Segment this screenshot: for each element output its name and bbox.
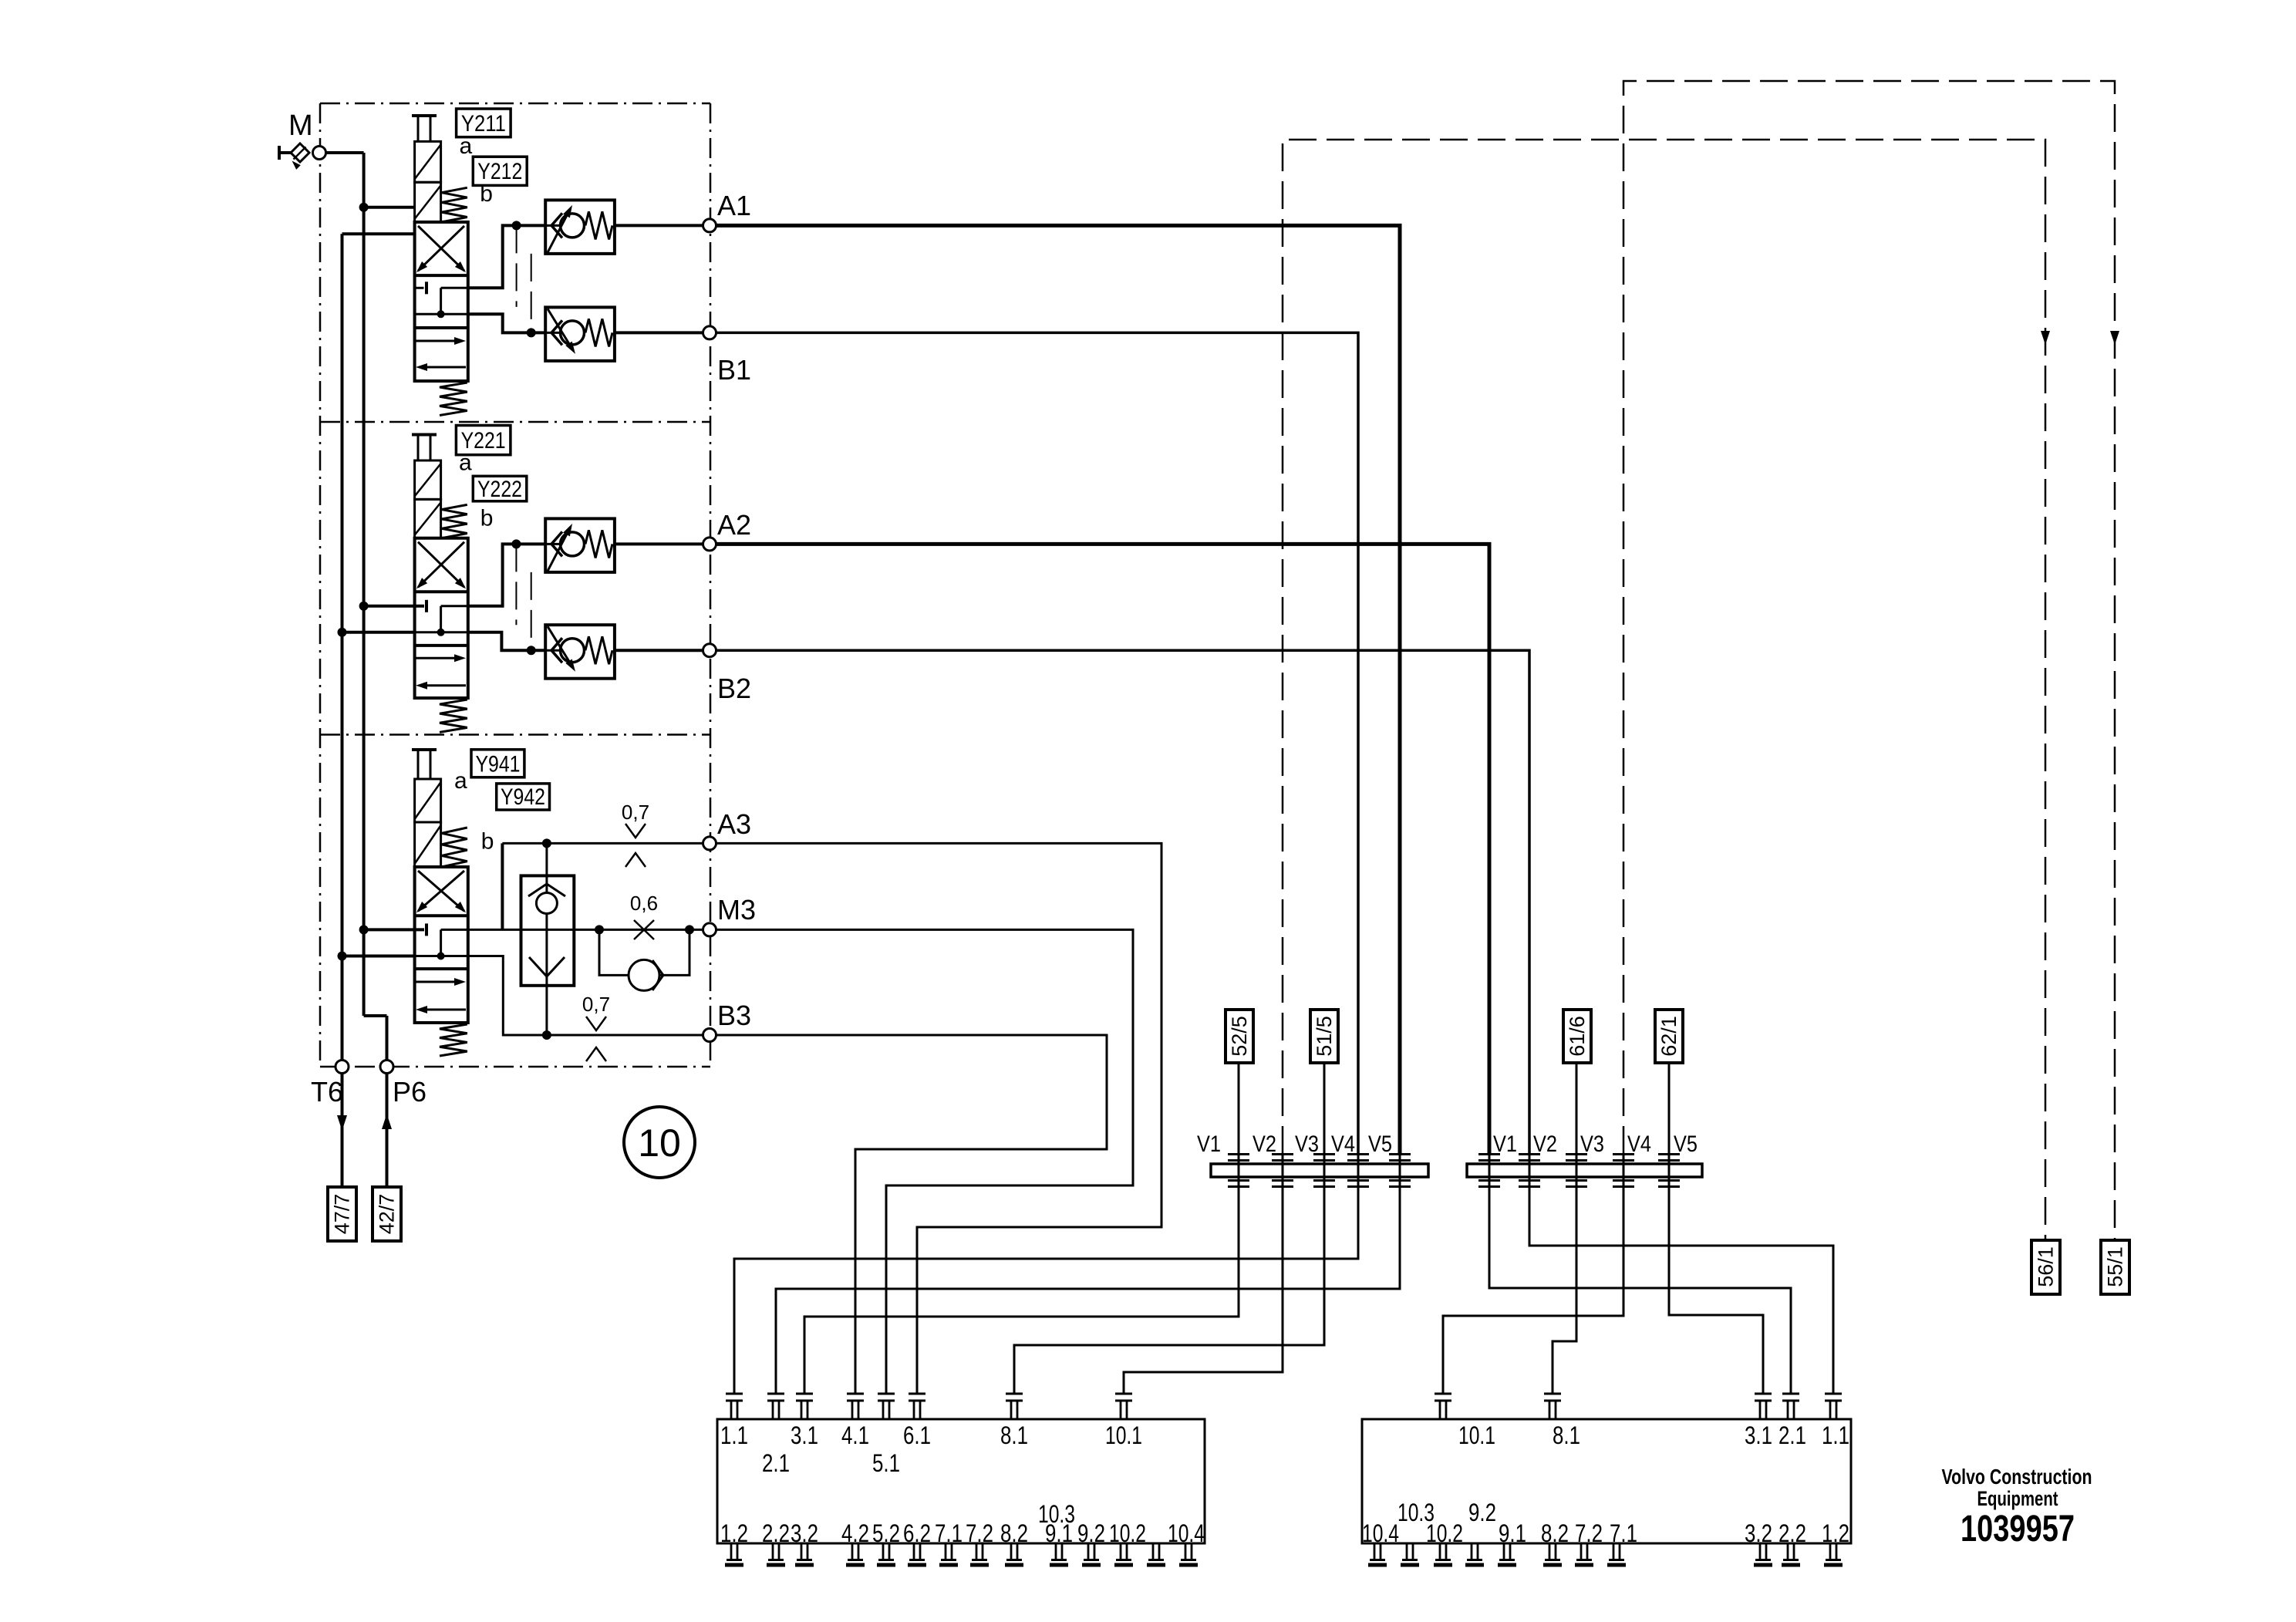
reference box 47/7 bbox=[328, 1187, 356, 1241]
svg-text:A3: A3 bbox=[717, 808, 751, 840]
valve Y221/Y222 parallel arrows position bbox=[416, 657, 461, 659]
valve Y221/Y222 centre position blocked port bbox=[415, 605, 424, 607]
svg-text:62/1: 62/1 bbox=[1657, 1016, 1681, 1057]
svg-text:a: a bbox=[454, 768, 467, 794]
svg-text:47/7: 47/7 bbox=[331, 1194, 354, 1235]
valve Y211/Y212 pilot cap bbox=[412, 114, 437, 117]
port M end bar bbox=[278, 146, 281, 160]
junction B3/module bbox=[542, 1030, 551, 1040]
label Y211 bbox=[457, 109, 511, 137]
reference box 56/1 bbox=[2031, 1240, 2060, 1294]
svg-text:V5: V5 bbox=[1368, 1131, 1392, 1157]
wire V4 right to 10.1 bbox=[1443, 1187, 1623, 1393]
spring lower Y941/Y942 bbox=[440, 1024, 467, 1056]
pin 2.2 (left block bottom) bbox=[772, 1543, 774, 1560]
pin 7.2 (left block bottom) bbox=[976, 1543, 978, 1560]
svg-text:P6: P6 bbox=[393, 1076, 426, 1108]
wire 61/6 stem bbox=[1576, 1063, 1578, 1154]
svg-text:b: b bbox=[481, 828, 494, 854]
pin 2.1 (right block top) bbox=[1782, 1393, 1799, 1395]
wire valve2 A-port to A2 bbox=[468, 544, 545, 605]
solenoid Y941/Y942 b box bbox=[415, 822, 441, 867]
pin 3.2 (right block bottom) bbox=[1759, 1543, 1762, 1560]
valve Y221/Y222 body bbox=[415, 538, 468, 698]
pin 5.2 (left block bottom) bbox=[882, 1543, 885, 1560]
svg-text:A2: A2 bbox=[717, 509, 751, 541]
svg-text:V2: V2 bbox=[1533, 1131, 1557, 1157]
svg-text:0,7: 0,7 bbox=[582, 993, 610, 1016]
wire V2 left to 10.1 bbox=[1124, 1187, 1283, 1393]
pin 10.1 (left block top) bbox=[1115, 1393, 1132, 1395]
connector block right bbox=[1362, 1419, 1851, 1543]
junction T-trunk valve2 tank bbox=[338, 628, 347, 637]
counterbalance valve B2 side bbox=[545, 625, 615, 679]
pin 9.1 (right block bottom) bbox=[1503, 1543, 1505, 1560]
svg-text:B1: B1 bbox=[717, 354, 751, 386]
wire B2 line bbox=[615, 649, 710, 652]
spring upper Y221/Y222 bbox=[442, 504, 467, 538]
pin 10.4 (left block bottom) bbox=[1185, 1543, 1187, 1560]
solenoid Y211/Y212 b box bbox=[415, 182, 441, 222]
pin 4.1 (left block top) bbox=[847, 1393, 864, 1395]
bulkhead connector V2 (right rail) bbox=[1519, 1153, 1540, 1155]
wire P-trunk vertical bbox=[362, 153, 366, 1016]
port M3 bbox=[703, 923, 716, 936]
port A1 bbox=[703, 219, 716, 232]
pin 2.2 (right block bottom) bbox=[1787, 1543, 1789, 1560]
svg-text:8.2: 8.2 bbox=[1000, 1519, 1028, 1547]
port P6 bbox=[380, 1061, 393, 1074]
svg-text:6.2: 6.2 bbox=[903, 1519, 931, 1547]
svg-text:7.1: 7.1 bbox=[1610, 1519, 1637, 1547]
svg-text:a: a bbox=[459, 450, 472, 476]
wire A3 long bbox=[716, 843, 1162, 1393]
port T6 bbox=[335, 1061, 349, 1074]
wire P6 down bbox=[386, 1074, 389, 1188]
wire A1 line bbox=[615, 224, 710, 227]
junction B2 pilot tap bbox=[527, 646, 536, 655]
svg-text:b: b bbox=[480, 506, 494, 531]
svg-text:8.1: 8.1 bbox=[1000, 1421, 1028, 1449]
bulkhead connector V2 (left rail) bbox=[1272, 1153, 1293, 1155]
bulkhead connector V4 (right rail) bbox=[1613, 1153, 1634, 1155]
wire valve3 T-port to B3 bbox=[468, 956, 710, 1036]
svg-text:42/7: 42/7 bbox=[376, 1194, 399, 1235]
svg-text:55/1: 55/1 bbox=[2104, 1246, 2127, 1287]
reference box 52/5 bbox=[1226, 1010, 1253, 1063]
bulkhead connector V3 (right rail) bbox=[1566, 1153, 1587, 1155]
wire tank Y941/Y942 bbox=[342, 955, 415, 958]
valve Y941/Y942 parallel arrows position bbox=[416, 981, 461, 983]
pin 1.2 (left block bottom) bbox=[730, 1543, 733, 1560]
pin 8.2 (left block bottom) bbox=[1010, 1543, 1013, 1560]
svg-text:1039957: 1039957 bbox=[1961, 1509, 2075, 1549]
wire tank Y211/Y212 bbox=[342, 232, 415, 235]
pin 1.1 (right block top) bbox=[1825, 1393, 1842, 1395]
svg-text:A1: A1 bbox=[717, 190, 751, 221]
valve Y941/Y942 crossed arrows position bbox=[418, 871, 464, 911]
svg-text:1.2: 1.2 bbox=[1822, 1519, 1849, 1547]
junction T-trunk valve3 tank bbox=[338, 952, 347, 961]
svg-text:1.2: 1.2 bbox=[720, 1519, 748, 1547]
pin 3.2 (left block bottom) bbox=[801, 1543, 803, 1560]
solenoid Y211/Y212 a box bbox=[415, 141, 441, 182]
wire B1 long bbox=[716, 332, 1359, 1154]
label Y941 bbox=[471, 750, 524, 777]
reference box 51/5 bbox=[1310, 1010, 1338, 1063]
wire M3 line bbox=[468, 929, 710, 931]
svg-text:2.1: 2.1 bbox=[1778, 1421, 1806, 1449]
svg-text:0,6: 0,6 bbox=[630, 892, 658, 915]
svg-text:B3: B3 bbox=[717, 1000, 751, 1031]
counterbalance valve A2 side bbox=[545, 518, 615, 572]
pin 3.1 (right block top) bbox=[1755, 1393, 1772, 1395]
svg-text:M: M bbox=[288, 110, 313, 142]
svg-text:5.1: 5.1 bbox=[872, 1449, 900, 1477]
bulkhead rail right bbox=[1467, 1164, 1702, 1177]
svg-text:Y941: Y941 bbox=[476, 752, 521, 777]
wire A3 line bbox=[502, 842, 710, 845]
svg-text:V4: V4 bbox=[1627, 1131, 1651, 1157]
svg-text:V1: V1 bbox=[1197, 1131, 1221, 1157]
svg-text:2.2: 2.2 bbox=[762, 1519, 790, 1547]
svg-text:3.2: 3.2 bbox=[1745, 1519, 1772, 1547]
pin 4.2 (left block bottom) bbox=[851, 1543, 854, 1560]
pin 7.1 (right block bottom) bbox=[1613, 1543, 1615, 1560]
pin 9.2 (left block bottom) bbox=[1087, 1543, 1090, 1560]
svg-text:56/1: 56/1 bbox=[2035, 1246, 2058, 1287]
svg-text:V3: V3 bbox=[1580, 1131, 1604, 1157]
svg-text:V4: V4 bbox=[1331, 1131, 1355, 1157]
pin 8.2 (right block bottom) bbox=[1549, 1543, 1551, 1560]
wire valve2 B-port to B2 bbox=[468, 632, 545, 650]
valve block boundary (dash-dot enclosure) bbox=[320, 103, 710, 105]
valve Y941/Y942 pilot cap bbox=[412, 748, 437, 751]
bulkhead connector V1 (left rail) bbox=[1228, 1153, 1249, 1155]
wire T6 down bbox=[341, 1074, 344, 1188]
junction M3 bypass left bbox=[595, 925, 604, 934]
solenoid Y941/Y942 a box bbox=[415, 779, 441, 822]
dual check valve module box bbox=[521, 875, 575, 985]
pilot line B2 to A-cb-valve bbox=[531, 572, 532, 650]
svg-text:b: b bbox=[480, 181, 493, 207]
pilot line A2 to B-cb-valve bbox=[515, 544, 517, 625]
valve Y211/Y212 centre position blocked port bbox=[415, 287, 424, 289]
svg-text:9.1: 9.1 bbox=[1499, 1519, 1526, 1547]
junction M3 bypass right bbox=[685, 925, 694, 934]
svg-text:3.1: 3.1 bbox=[1745, 1421, 1772, 1449]
valve Y941/Y942 centre position blocked port bbox=[415, 929, 424, 931]
svg-text:7.2: 7.2 bbox=[1575, 1519, 1603, 1547]
svg-text:10.2: 10.2 bbox=[1109, 1519, 1146, 1547]
wire tank Y221/Y222 bbox=[342, 631, 415, 634]
wire M3 long bbox=[716, 929, 1134, 1393]
label Y221 bbox=[456, 426, 511, 455]
junction A2 pilot tap bbox=[511, 539, 521, 548]
module central line bbox=[545, 843, 548, 1035]
svg-text:10.2: 10.2 bbox=[1426, 1519, 1463, 1547]
svg-text:10.3: 10.3 bbox=[1038, 1500, 1075, 1528]
pin 5.1 (left block top) bbox=[878, 1393, 895, 1395]
svg-text:a: a bbox=[460, 133, 473, 159]
bypass check valve bbox=[599, 929, 629, 975]
pin 6.1 (left block top) bbox=[909, 1393, 925, 1395]
label Y222 bbox=[473, 476, 527, 501]
dashed line to 55/1 bbox=[1623, 81, 2115, 1240]
junction P-trunk valve2 pilot bbox=[359, 602, 369, 611]
connector block left bbox=[717, 1419, 1205, 1543]
reference box 42/7 bbox=[373, 1187, 401, 1241]
wire 62/1 stem bbox=[1668, 1063, 1671, 1154]
wire V5 right to 3.1 bbox=[1669, 1187, 1763, 1393]
wire valve1 A-port to A1 bbox=[468, 225, 545, 288]
wire A2 long bbox=[716, 544, 1490, 1154]
bulkhead connector V5 (right rail) bbox=[1658, 1153, 1680, 1155]
junction P-trunk valve3 pilot bbox=[359, 925, 369, 934]
spring upper Y211/Y212 bbox=[442, 187, 467, 222]
svg-text:52/5: 52/5 bbox=[1228, 1016, 1251, 1057]
valve Y211/Y212 parallel arrows position bbox=[416, 340, 461, 342]
svg-text:10.1: 10.1 bbox=[1105, 1421, 1142, 1449]
svg-text:4.1: 4.1 bbox=[841, 1421, 869, 1449]
wire pilot Y941/Y942 bbox=[364, 928, 424, 931]
wire V3 left to 8.1 bbox=[1014, 1187, 1324, 1393]
solenoid Y221/Y222 a box bbox=[415, 460, 441, 499]
wire pilot Y221/Y222 bbox=[364, 605, 424, 608]
svg-text:4.2: 4.2 bbox=[841, 1519, 869, 1547]
svg-text:Y942: Y942 bbox=[501, 784, 545, 810]
spring lower Y221/Y222 bbox=[440, 700, 467, 732]
svg-text:1.1: 1.1 bbox=[1822, 1421, 1849, 1449]
pin 2.1 (left block top) bbox=[767, 1393, 784, 1395]
wire B1 line bbox=[615, 331, 710, 334]
svg-text:2.1: 2.1 bbox=[762, 1449, 790, 1477]
spring lower Y211/Y212 bbox=[440, 383, 467, 416]
svg-text:10.4: 10.4 bbox=[1168, 1519, 1205, 1547]
pin 10.4 (right block bottom) bbox=[1374, 1543, 1376, 1560]
svg-text:10: 10 bbox=[638, 1121, 681, 1165]
svg-text:9.2: 9.2 bbox=[1468, 1499, 1496, 1526]
wire M stub bbox=[279, 151, 292, 154]
measuring point diamond bbox=[291, 143, 309, 162]
port A3 bbox=[703, 837, 716, 850]
solenoid Y221/Y222 b box bbox=[415, 499, 441, 538]
wire valve1 B-port to B1 bbox=[468, 314, 545, 332]
svg-text:V1: V1 bbox=[1493, 1131, 1517, 1157]
wire V4 left to 1.1 bbox=[734, 1187, 1358, 1393]
svg-text:V5: V5 bbox=[1674, 1131, 1698, 1157]
orifice 0,6 bbox=[634, 920, 654, 939]
wire 51/5 stem bbox=[1323, 1063, 1326, 1154]
balloon 10 bbox=[624, 1107, 695, 1178]
wire V3 right to 8.1 bbox=[1553, 1187, 1576, 1393]
pin 3.1 (left block top) bbox=[796, 1393, 813, 1395]
counterbalance valve A1 side bbox=[545, 200, 615, 254]
svg-text:7.1: 7.1 bbox=[935, 1519, 963, 1547]
svg-text:T6: T6 bbox=[311, 1076, 343, 1108]
reference box 55/1 bbox=[2101, 1240, 2129, 1294]
wire B2 long bbox=[716, 650, 1530, 1154]
valve Y221/Y222 pilot cap bbox=[412, 433, 437, 437]
svg-text:V2: V2 bbox=[1253, 1131, 1276, 1157]
pin 10.3 (left block bottom) bbox=[1152, 1543, 1155, 1560]
svg-text:V3: V3 bbox=[1295, 1131, 1319, 1157]
svg-text:10.1: 10.1 bbox=[1458, 1421, 1495, 1449]
svg-text:51/5: 51/5 bbox=[1313, 1016, 1336, 1057]
svg-text:Volvo Construction: Volvo Construction bbox=[1942, 1465, 2092, 1489]
wire V2 right to 1.1 bbox=[1529, 1187, 1833, 1393]
check valve lower (module) bbox=[529, 957, 565, 976]
wire pilot Y211/Y212 bbox=[364, 206, 415, 209]
svg-text:8.2: 8.2 bbox=[1541, 1519, 1569, 1547]
valve Y211/Y212 body bbox=[415, 222, 468, 381]
valve Y221/Y222 crossed arrows position bbox=[418, 542, 464, 588]
junction B1 pilot tap bbox=[527, 328, 536, 337]
section divider 2 bbox=[320, 733, 710, 736]
pin 9.2 (right block bottom) bbox=[1471, 1543, 1473, 1560]
svg-text:0,7: 0,7 bbox=[622, 801, 649, 824]
wire A1 long bbox=[716, 225, 1401, 1154]
wire B3 long bbox=[716, 1035, 1108, 1393]
pin 6.2 (left block bottom) bbox=[913, 1543, 915, 1560]
bulkhead connector V1 (right rail) bbox=[1478, 1153, 1500, 1155]
wire valve3 A-port riser to A3 bbox=[501, 843, 504, 929]
junction A3/module bbox=[542, 838, 551, 848]
reference box 62/1 bbox=[1655, 1010, 1683, 1063]
pin 10.1 (right block top) bbox=[1435, 1393, 1451, 1395]
pin 8.1 (left block top) bbox=[1006, 1393, 1023, 1395]
counterbalance valve B1 side bbox=[545, 307, 615, 361]
svg-text:9.2: 9.2 bbox=[1077, 1519, 1105, 1547]
port B1 bbox=[703, 326, 716, 339]
svg-text:1.1: 1.1 bbox=[720, 1421, 748, 1449]
port B3 bbox=[703, 1029, 716, 1042]
pin 7.2 (right block bottom) bbox=[1580, 1543, 1583, 1560]
pin 10.2 (left block bottom) bbox=[1120, 1543, 1122, 1560]
svg-text:Equipment: Equipment bbox=[1977, 1487, 2058, 1510]
bulkhead connector V3 (left rail) bbox=[1313, 1153, 1335, 1155]
pilot line B1 to A-cb-valve bbox=[531, 254, 532, 333]
label Y942 bbox=[497, 784, 550, 810]
svg-text:6.1: 6.1 bbox=[903, 1421, 931, 1449]
dashed line to 56/1 bbox=[1283, 140, 2045, 1240]
wire T-trunk vertical bbox=[341, 234, 344, 1060]
svg-text:5.2: 5.2 bbox=[872, 1519, 900, 1547]
svg-text:10.4: 10.4 bbox=[1362, 1519, 1399, 1547]
bulkhead connector V4 (left rail) bbox=[1347, 1153, 1369, 1155]
wire V1 left to 3.1 bbox=[804, 1187, 1239, 1393]
svg-text:7.2: 7.2 bbox=[966, 1519, 993, 1547]
wire V5 left to 2.1 bbox=[776, 1187, 1400, 1393]
junction P-trunk valve1 pilot bbox=[359, 203, 369, 212]
spring upper Y941/Y942 bbox=[442, 828, 467, 867]
port B2 bbox=[703, 644, 716, 657]
wire 52/5 stem bbox=[1238, 1063, 1240, 1154]
svg-text:61/6: 61/6 bbox=[1566, 1016, 1589, 1057]
svg-text:3.1: 3.1 bbox=[791, 1421, 818, 1449]
pin 10.2 (right block bottom) bbox=[1439, 1543, 1441, 1560]
port A2 bbox=[703, 538, 716, 551]
pin 10.3 (right block bottom) bbox=[1406, 1543, 1408, 1560]
svg-text:2.2: 2.2 bbox=[1778, 1519, 1806, 1547]
pin 9.1 (left block bottom) bbox=[1055, 1543, 1057, 1560]
label Y212 bbox=[473, 157, 527, 185]
node M circle bbox=[313, 147, 326, 160]
svg-text:8.1: 8.1 bbox=[1553, 1421, 1580, 1449]
wire A2 line bbox=[615, 542, 710, 545]
valve Y941/Y942 body bbox=[415, 867, 468, 1023]
valve Y211/Y212 crossed arrows position bbox=[418, 226, 464, 271]
junction A1 pilot tap bbox=[512, 221, 521, 230]
bulkhead rail left bbox=[1211, 1164, 1428, 1177]
pin 1.2 (right block bottom) bbox=[1829, 1543, 1832, 1560]
wire M to P-trunk bbox=[326, 151, 364, 154]
svg-text:3.2: 3.2 bbox=[791, 1519, 818, 1547]
svg-text:M3: M3 bbox=[717, 894, 756, 926]
wire V1 right to 2.1 bbox=[1489, 1187, 1791, 1393]
pin 8.1 (right block top) bbox=[1544, 1393, 1561, 1395]
pilot line A1 to B-cb-valve bbox=[516, 225, 518, 307]
pin 1.1 (left block top) bbox=[726, 1393, 743, 1395]
bulkhead connector V5 (left rail) bbox=[1389, 1153, 1411, 1155]
reference box 61/6 bbox=[1563, 1010, 1591, 1063]
svg-text:Y222: Y222 bbox=[477, 477, 522, 502]
pin 7.1 (left block bottom) bbox=[945, 1543, 947, 1560]
check valve upper (module) bbox=[536, 893, 557, 914]
svg-text:B2: B2 bbox=[717, 673, 751, 704]
section divider 1 bbox=[320, 421, 710, 423]
